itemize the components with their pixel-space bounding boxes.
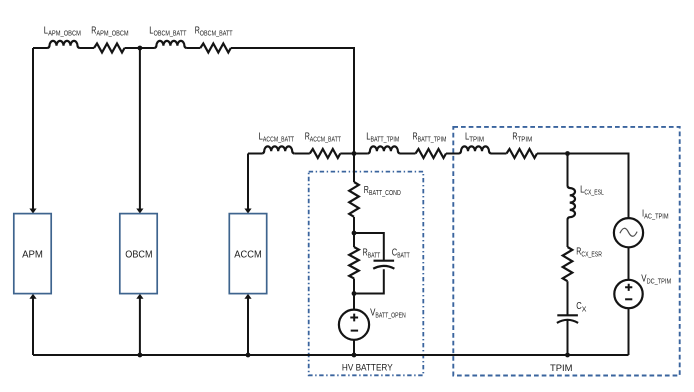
junction node: bottom bus / Cx xyxy=(565,353,570,358)
inductor L_BATT_TPIM xyxy=(368,146,400,153)
svg-text:APM: APM xyxy=(22,249,43,260)
junction node: bottom bus / OBCM xyxy=(138,353,143,358)
arrow into OBCM top xyxy=(136,209,143,214)
resistor R_TPIM xyxy=(507,149,538,158)
junction node: top bus / OBCM xyxy=(138,46,143,51)
arrow into ACCM top xyxy=(244,209,251,214)
arrow into APM top xyxy=(29,209,36,214)
wire: C_BATT parallel branch xyxy=(354,233,384,294)
wire: top bus y=48 xyxy=(33,48,354,154)
junction node: bottom bus / ACCM xyxy=(246,353,251,358)
wire: battery branch verticals xyxy=(353,154,355,356)
junction node: mid bus / Cx branch xyxy=(565,151,570,156)
junction node: R_BATT_COND / C_BATT top xyxy=(352,231,357,236)
junction node: bottom bus / battery xyxy=(352,353,357,358)
resistor R_APM_OBCM xyxy=(94,44,125,53)
wire: APM drops xyxy=(32,48,34,355)
inductor L_TPIM xyxy=(459,146,491,153)
wire: Cx branch verticals xyxy=(567,154,569,356)
capacitor C_X xyxy=(557,315,578,323)
wire: ACCM drops xyxy=(247,154,249,356)
resistor R_BATT (vertical) xyxy=(349,247,359,278)
inductor L_OBCM_BATT xyxy=(154,41,186,48)
inductor L_CX_ESL (vertical) xyxy=(568,186,576,219)
resistor R_CX_ESR (vertical) xyxy=(563,247,573,281)
inductor L_APM_OBCM xyxy=(48,41,80,48)
resistor R_BATT_COND (vertical) xyxy=(349,182,359,217)
voltage source V_BATT_OPEN xyxy=(339,310,369,340)
resistor R_ACCM_BATT xyxy=(310,149,341,158)
TPIM enclosure box xyxy=(453,127,679,376)
svg-text:TPIM: TPIM xyxy=(550,363,573,374)
junction node: R_BATT / C_BATT bottom xyxy=(352,291,357,296)
OBCM block xyxy=(120,214,157,294)
svg-text:ACCM: ACCM xyxy=(234,249,261,260)
arrow into OBCM bottom xyxy=(136,294,143,299)
capacitor C_BATT xyxy=(373,261,394,269)
resistor R_OBCM_BATT xyxy=(200,44,231,53)
wire: TPIM source branch xyxy=(628,247,630,355)
arrow into ACCM bottom xyxy=(244,294,251,299)
inductor L_ACCM_BATT xyxy=(262,146,294,153)
wire: bottom bus y=355 xyxy=(33,354,629,356)
svg-text:OBCM: OBCM xyxy=(125,249,152,260)
wire: mid bus y=153.5 xyxy=(248,154,629,219)
AC current source I_AC_TPIM xyxy=(614,218,643,247)
junction node: mid bus / battery branch xyxy=(352,151,357,156)
svg-text:HV BATTERY: HV BATTERY xyxy=(342,363,393,374)
DC voltage source V_DC_TPIM xyxy=(614,280,642,308)
ACCM block xyxy=(229,214,266,294)
wire: OBCM drops xyxy=(139,48,141,355)
resistor R_BATT_TPIM xyxy=(416,149,447,158)
HV BATTERY enclosure box xyxy=(309,172,424,376)
arrow into APM bottom xyxy=(29,294,36,299)
APM block xyxy=(14,214,51,294)
